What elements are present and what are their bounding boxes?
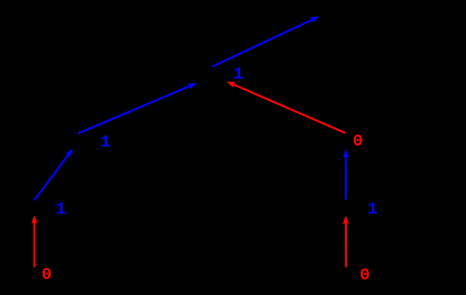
svg-text:1: 1: [367, 200, 377, 219]
svg-text:1: 1: [233, 66, 243, 85]
wire: red arrow 0 (bottom-right vertical): [343, 216, 349, 268]
wire: blue arrow 1 (right vertical): [343, 149, 349, 200]
svg-text:0: 0: [360, 267, 370, 286]
svg-text:0: 0: [42, 266, 52, 285]
wire: blue arrow 1 (long middle diagonal): [78, 83, 197, 133]
wire: blue arrow 1 (top diagonal): [212, 16, 319, 66]
svg-text:0: 0: [353, 133, 363, 152]
wire: red arrow 0 (bottom-left vertical): [31, 215, 37, 267]
svg-text:1: 1: [100, 133, 110, 152]
svg-text:1: 1: [56, 200, 66, 219]
wire: red arrow 0 (diagonal right-to-left): [227, 82, 346, 134]
wire: blue arrow 1 (lower-left diagonal): [34, 149, 73, 201]
